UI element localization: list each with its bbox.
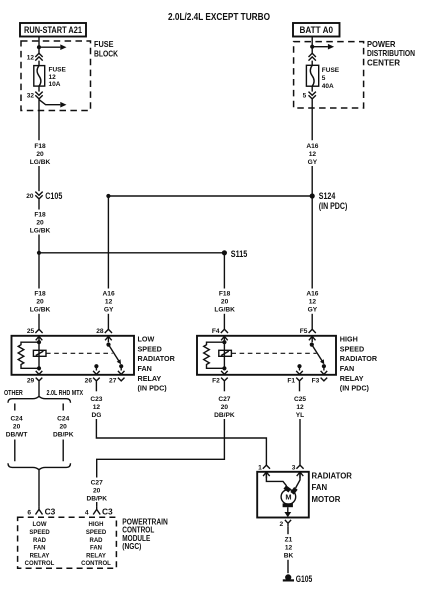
node A16 branch corner	[106, 194, 110, 198]
svg-text:GY: GY	[308, 307, 318, 314]
svg-text:FUSE: FUSE	[49, 66, 67, 73]
svg-text:G105: G105	[296, 573, 313, 584]
node relay2 coil top	[222, 340, 226, 344]
wire motor pin1 internal	[266, 473, 286, 486]
label low speed rad fan relay control	[25, 522, 55, 567]
svg-text:S115: S115	[231, 248, 248, 259]
svg-text:POWER: POWER	[367, 40, 396, 49]
splice S124	[310, 193, 315, 198]
svg-text:SPEED: SPEED	[138, 344, 162, 353]
svg-text:A16: A16	[103, 291, 115, 298]
svg-text:20: 20	[60, 423, 68, 430]
wire Z1 ground run	[287, 527, 289, 534]
wire dashed actuator link low	[46, 352, 113, 354]
svg-text:C25: C25	[294, 396, 306, 403]
wire branch arrow PDC	[312, 46, 328, 48]
svg-text:F18: F18	[34, 143, 46, 150]
svg-text:27: 27	[109, 378, 117, 385]
wire A16 branch down	[107, 196, 109, 289]
svg-text:RELAY: RELAY	[138, 374, 162, 383]
svg-text:C3: C3	[45, 507, 56, 517]
svg-text:BK: BK	[284, 552, 294, 559]
svg-text:F1: F1	[287, 378, 295, 385]
wire to S115 junction	[38, 235, 40, 289]
svg-text:CENTER: CENTER	[367, 59, 400, 68]
svg-text:40A: 40A	[322, 83, 334, 90]
wire C25 pinF1 to motor pin3	[299, 384, 301, 391]
svg-text:OTHER: OTHER	[4, 388, 23, 397]
svg-text:20: 20	[221, 404, 229, 411]
svg-text:HIGH: HIGH	[89, 522, 104, 528]
svg-text:FUSE: FUSE	[322, 67, 340, 74]
wire motor to pin2 arrow	[287, 507, 289, 512]
node PDC feed junction	[310, 45, 314, 49]
motor M armature	[281, 490, 296, 505]
svg-text:CONTROL: CONTROL	[25, 561, 55, 567]
wire A16 through S124	[311, 166, 313, 289]
svg-text:5: 5	[322, 75, 326, 82]
svg-text:C105: C105	[45, 190, 62, 201]
svg-text:5: 5	[303, 93, 307, 100]
svg-text:26: 26	[85, 378, 93, 385]
node fuse block feed junction	[37, 45, 41, 49]
svg-text:C27: C27	[218, 396, 230, 403]
svg-text:DB/PK: DB/PK	[214, 412, 235, 419]
fuse block FUSE BLOCK dashed box	[21, 41, 91, 111]
node relay coil bottom	[37, 366, 41, 370]
wire into fuse 5	[311, 47, 313, 66]
relay HIGH SPEED RADIATOR FAN RELAY box	[197, 336, 336, 375]
svg-text:Z1: Z1	[285, 536, 293, 543]
wire S124 horizontal run	[108, 195, 310, 197]
svg-text:FAN: FAN	[312, 483, 328, 492]
node contact pin 26	[94, 364, 98, 368]
svg-text:28: 28	[96, 328, 104, 335]
wire PDC output	[311, 86, 313, 140]
fuse F5 40A	[306, 65, 318, 86]
svg-text:32: 32	[27, 93, 35, 100]
wire branch downs	[15, 440, 63, 462]
svg-text:F18: F18	[34, 291, 46, 298]
svg-text:12: 12	[296, 404, 304, 411]
svg-text:LOW: LOW	[138, 335, 155, 344]
svg-text:RADIATOR: RADIATOR	[312, 471, 353, 480]
svg-text:F3: F3	[312, 378, 320, 385]
label C24 20 DB/WT	[6, 415, 28, 438]
svg-text:LOW: LOW	[33, 522, 47, 528]
svg-text:20: 20	[36, 299, 44, 306]
ground G105	[285, 574, 291, 580]
svg-text:GY: GY	[104, 307, 114, 314]
svg-text:GY: GY	[308, 159, 318, 166]
svg-text:25: 25	[27, 328, 35, 335]
svg-text:RELAY: RELAY	[86, 553, 106, 559]
svg-text:RUN-START A21: RUN-START A21	[24, 25, 82, 35]
relay LOW SPEED RADIATOR FAN RELAY box	[12, 336, 135, 375]
svg-text:LG/BK: LG/BK	[30, 159, 51, 166]
wire pin29 down	[38, 384, 40, 397]
pin F3	[323, 366, 325, 370]
svg-text:C3: C3	[102, 507, 113, 517]
svg-text:DB/PK: DB/PK	[86, 495, 107, 502]
svg-text:F2: F2	[212, 378, 220, 385]
node F18 splice tap	[37, 251, 41, 255]
svg-text:29: 29	[27, 378, 35, 385]
wire merged to PCM pin 6	[38, 470, 40, 507]
pin 27	[120, 366, 122, 370]
svg-text:2.0L/2.4L EXCEPT TURBO: 2.0L/2.4L EXCEPT TURBO	[168, 12, 270, 23]
svg-text:A16: A16	[306, 143, 318, 150]
svg-text:12: 12	[309, 151, 317, 158]
power distribution center dashed box	[294, 42, 364, 108]
wire branch arrow bottom	[39, 100, 60, 105]
wire alternates bottom brace	[8, 463, 71, 469]
fuse F12 10A	[34, 66, 45, 87]
svg-text:C23: C23	[90, 396, 102, 403]
pin chevrons PDC top	[309, 53, 316, 60]
svg-text:1: 1	[258, 464, 262, 471]
svg-text:12: 12	[105, 299, 113, 306]
label C27 20 DB/PK (2)	[86, 479, 107, 502]
wire C105 out	[38, 199, 40, 209]
label F18 20 LG/BK (F4 branch)	[214, 291, 235, 314]
label F18 20 LG/BK (1)	[30, 143, 51, 166]
svg-text:M: M	[285, 493, 291, 502]
svg-text:FAN: FAN	[34, 546, 46, 552]
module POWERTRAIN CONTROL MODULE dashed box	[18, 517, 117, 568]
wire RUN-START to fuse block	[38, 37, 40, 48]
svg-text:SPEED: SPEED	[86, 530, 107, 536]
svg-text:(IN PDC): (IN PDC)	[138, 384, 168, 393]
switch relay low contact arm	[106, 343, 110, 347]
label F18 20 LG/BK (3)	[30, 291, 51, 314]
svg-text:RAD: RAD	[90, 538, 104, 544]
svg-text:C24: C24	[11, 415, 23, 422]
svg-text:CONTROL: CONTROL	[81, 561, 111, 567]
splice S115	[222, 250, 227, 255]
wire F18 to C105	[38, 166, 40, 191]
svg-text:FAN: FAN	[138, 364, 152, 373]
wire C23 pin26 to motor pin1	[95, 384, 97, 391]
svg-text:12: 12	[27, 54, 35, 61]
svg-text:RELAY: RELAY	[30, 553, 50, 559]
wire S115 horizontal run	[39, 252, 222, 254]
wire into fuse	[38, 47, 40, 65]
connector RUN-START A21	[20, 23, 86, 37]
wire branch arrow top	[39, 46, 60, 48]
pin F2	[223, 368, 225, 370]
svg-text:FUSE: FUSE	[94, 40, 114, 49]
svg-text:BLOCK: BLOCK	[94, 50, 118, 59]
svg-text:RADIATOR: RADIATOR	[138, 354, 176, 363]
label A16 12 GY (branch)	[103, 291, 115, 314]
resistor relay suppression	[18, 342, 39, 368]
label F18 20 LG/BK (2)	[30, 211, 51, 234]
svg-text:12: 12	[93, 404, 101, 411]
svg-text:(IN PDC): (IN PDC)	[340, 384, 370, 393]
svg-text:12: 12	[285, 544, 293, 551]
svg-text:F18: F18	[219, 291, 231, 298]
wire to relay pin F4	[223, 314, 225, 330]
svg-text:3: 3	[292, 464, 296, 471]
svg-text:20: 20	[13, 423, 21, 430]
svg-text:6: 6	[27, 509, 31, 516]
svg-text:SPEED: SPEED	[340, 344, 364, 353]
svg-text:10A: 10A	[49, 81, 61, 88]
label A16 12 GY (2)	[306, 291, 318, 314]
svg-text:20: 20	[93, 487, 101, 494]
svg-text:MOTOR: MOTOR	[312, 495, 341, 504]
svg-text:2: 2	[280, 521, 284, 528]
svg-text:(NGC): (NGC)	[122, 542, 141, 551]
svg-text:LG/BK: LG/BK	[30, 227, 51, 234]
connector BATT A0	[293, 23, 340, 37]
svg-text:BATT A0: BATT A0	[300, 25, 334, 35]
wire BATT to PDC	[311, 37, 313, 47]
coil relay high	[223, 342, 225, 368]
wire alternates top brace	[8, 396, 71, 402]
svg-text:C24: C24	[57, 415, 69, 422]
node contact pin F1	[297, 364, 301, 368]
svg-text:C27: C27	[91, 479, 103, 486]
wire to relay pin 25	[38, 314, 40, 330]
label C24 20 DB/PK	[53, 415, 74, 438]
wire to relay pin 28	[107, 314, 109, 330]
svg-text:20: 20	[36, 151, 44, 158]
svg-text:LG/BK: LG/BK	[30, 307, 51, 314]
svg-text:2.0L RHD MTX: 2.0L RHD MTX	[47, 388, 84, 397]
svg-text:SPEED: SPEED	[29, 530, 50, 536]
brush bottom	[283, 503, 293, 507]
svg-text:20: 20	[221, 299, 229, 306]
svg-text:RELAY: RELAY	[340, 374, 364, 383]
svg-text:DISTRIBUTION: DISTRIBUTION	[367, 49, 415, 58]
svg-text:F5: F5	[300, 328, 308, 335]
wire motor pin3 internal	[296, 473, 300, 489]
svg-text:A16: A16	[306, 291, 318, 298]
brush left	[285, 487, 290, 491]
svg-text:RAD: RAD	[33, 538, 47, 544]
switch relay high contact arm	[310, 343, 314, 347]
svg-text:(IN PDC): (IN PDC)	[319, 200, 348, 211]
svg-text:DB/PK: DB/PK	[53, 431, 74, 438]
wire dashed actuator link high	[231, 352, 316, 354]
node relay2 coil bottom	[222, 366, 226, 370]
node relay coil top	[37, 340, 41, 344]
wire to relay pin F5	[311, 314, 313, 330]
coil relay low	[38, 342, 40, 368]
svg-text:LG/BK: LG/BK	[214, 307, 235, 314]
svg-text:YL: YL	[296, 412, 304, 419]
svg-text:RADIATOR: RADIATOR	[340, 354, 378, 363]
pin 29	[38, 368, 40, 370]
svg-text:HIGH: HIGH	[340, 335, 358, 344]
svg-text:FAN: FAN	[340, 364, 354, 373]
motor RADIATOR FAN MOTOR box	[257, 472, 309, 518]
svg-text:DB/WT: DB/WT	[6, 431, 28, 438]
svg-text:12: 12	[309, 299, 317, 306]
svg-text:DG: DG	[91, 412, 101, 419]
label A16 12 GY (1)	[306, 143, 318, 166]
svg-text:20: 20	[36, 219, 44, 226]
svg-text:FAN: FAN	[90, 546, 102, 552]
wire S115 down to F4	[223, 253, 225, 289]
resistor relay2 suppression	[204, 342, 225, 368]
svg-text:20: 20	[26, 193, 34, 200]
svg-text:4: 4	[85, 509, 89, 516]
svg-text:F4: F4	[212, 328, 220, 335]
brush right	[292, 488, 296, 493]
svg-text:F18: F18	[34, 211, 46, 218]
wire fuse output	[38, 86, 40, 140]
wire C27 pinF2 run	[223, 384, 225, 391]
label high speed rad fan relay control	[81, 522, 111, 567]
wire branch stubs	[15, 404, 63, 411]
